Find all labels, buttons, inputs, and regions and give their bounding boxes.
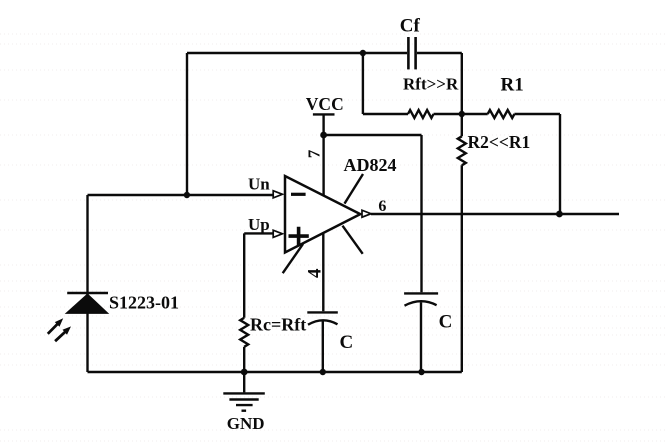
svg-text:Un: Un (248, 175, 270, 194)
svg-text:Rc=Rft: Rc=Rft (250, 315, 306, 335)
svg-text:6: 6 (378, 198, 386, 215)
svg-text:VCC: VCC (306, 94, 344, 114)
svg-text:GND: GND (227, 414, 265, 433)
svg-text:Cf: Cf (400, 16, 421, 37)
svg-text:R2<<R1: R2<<R1 (468, 132, 531, 152)
svg-text:AD824: AD824 (344, 155, 397, 175)
svg-text:Rft>>R: Rft>>R (403, 75, 459, 94)
svg-text:4: 4 (305, 268, 326, 278)
svg-text:S1223-01: S1223-01 (109, 292, 179, 312)
svg-text:7: 7 (304, 149, 323, 158)
svg-text:R1: R1 (501, 75, 524, 96)
svg-text:Up: Up (248, 215, 270, 234)
svg-text:C: C (439, 312, 453, 333)
svg-text:C: C (340, 332, 354, 353)
